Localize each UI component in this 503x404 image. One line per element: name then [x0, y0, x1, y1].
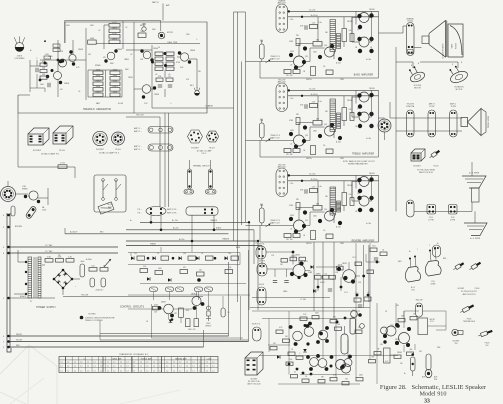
wire verticals [131, 241, 240, 310]
label ORANGE [205, 105, 214, 108]
speaker 6x9 lower [464, 223, 487, 236]
transistor Q35 [340, 355, 352, 370]
svg-text:15 PIN: 15 PIN [451, 106, 457, 108]
capacitor C31 [221, 308, 229, 317]
wire [42, 265, 80, 295]
connector socket J2 (circular) [93, 131, 107, 145]
svg-text:AMP #1 ♂: AMP #1 ♂ [134, 145, 142, 148]
transistor treble amp Q4 output [357, 112, 373, 128]
svg-text:1.2: 1.2 [179, 370, 181, 372]
svg-text:B- 30v: B- 30v [336, 227, 341, 229]
wire rail B+23V [126, 240, 258, 242]
diode CR15 [169, 318, 174, 322]
svg-text:400K: 400K [96, 75, 101, 77]
label treble amp rails [309, 89, 317, 96]
motor rotation [446, 63, 469, 91]
connector long strip [167, 207, 218, 215]
wire treble amp rail B+23v [288, 89, 379, 91]
dot mark [44, 40, 46, 42]
svg-text:B+: B+ [30, 50, 32, 52]
svg-text:220: 220 [42, 74, 45, 76]
svg-text:SOCKET: SOCKET [96, 149, 105, 151]
resistor R54 [100, 266, 108, 272]
svg-text:100K 470: 100K 470 [188, 329, 195, 331]
svg-text:AMP #2 ♂: AMP #2 ♂ [134, 148, 142, 151]
wire reverb amp rail B+13.8v [288, 180, 379, 182]
label bass amp [354, 73, 374, 76]
svg-text:-1.4v: -1.4v [318, 186, 322, 188]
plug twister field [460, 304, 475, 314]
labels reverb conns [428, 217, 455, 222]
svg-text:BLUE: BLUE [236, 247, 240, 249]
label lamp [14, 56, 25, 60]
labels br bottom [422, 376, 438, 381]
fuse reverb amp input [260, 205, 265, 223]
lamp DS3 [194, 87, 200, 95]
label plug 910 [485, 343, 490, 348]
svg-text:1.2: 1.2 [107, 370, 109, 372]
connector reverb aux [433, 245, 441, 257]
svg-text:.02: .02 [98, 30, 100, 32]
svg-text:NOTES: NOTES [89, 314, 97, 316]
svg-text:TRANSISTOR VOLTAGES E.C.: TRANSISTOR VOLTAGES E.C. [119, 353, 149, 356]
label socket/plug 2 [96, 149, 121, 155]
svg-text:115 VAC 2.5 5 AMP: 115 VAC 2.5 5 AMP [197, 150, 213, 153]
wire black lower [10, 295, 55, 298]
svg-text:1.2: 1.2 [153, 366, 155, 368]
wire treble amp interstage [296, 123, 325, 141]
transistor treble amp Q1 [289, 125, 307, 148]
connector P.S. feed [146, 207, 166, 216]
svg-text:2N508: 2N508 [342, 263, 347, 265]
table transistor voltages [59, 357, 218, 373]
labels tank wires [398, 243, 447, 263]
svg-text:820K: 820K [113, 80, 118, 82]
svg-text:910: 910 [486, 345, 489, 347]
svg-text:ROTOR: ROTOR [456, 42, 458, 49]
connector treble amp B+ feed [276, 83, 288, 112]
svg-text:SOCKET: SOCKET [413, 166, 421, 168]
svg-text:THERMAL SWITCH: THERMAL SWITCH [193, 165, 210, 168]
label treble amp B-30 [336, 138, 371, 144]
svg-text:B- 30v: B- 30v [336, 142, 341, 144]
svg-text:JUMP: JUMP [315, 274, 321, 276]
svg-text:CR2: CR2 [183, 253, 186, 255]
svg-text:FUSE 15A: FUSE 15A [406, 105, 415, 108]
wire LT7VAC lower [10, 252, 118, 254]
svg-text:MOTOR: MOTOR [167, 32, 174, 34]
plug socket icon A [453, 262, 465, 271]
junction dots [151, 52, 167, 67]
transistor bass amp Q1 [289, 46, 307, 69]
labels signal [258, 244, 266, 263]
svg-text:B: B [411, 65, 412, 67]
svg-text:YELLOW: YELLOW [415, 300, 422, 302]
svg-text:1.2: 1.2 [212, 362, 214, 364]
svg-text:PLUG: PLUG [209, 148, 215, 150]
svg-text:2N1540: 2N1540 [369, 173, 375, 175]
transistor bass amp Q3 output [357, 13, 373, 30]
label 6x9 spkr upper [469, 173, 480, 175]
svg-text:560: 560 [316, 204, 319, 206]
reverb tank 2 [425, 248, 441, 286]
wire bass amp interstage [296, 44, 325, 62]
svg-text:TREMOLO GENERATOR: TREMOLO GENERATOR [83, 108, 111, 111]
svg-text:PLUG: PLUG [59, 150, 65, 152]
svg-text:OC-2: OC-2 [344, 292, 348, 294]
svg-text:1.2: 1.2 [179, 366, 181, 368]
labels mid band [255, 243, 362, 302]
label 6x9 spkr lower [470, 238, 481, 240]
capacitor motor-run C3 [158, 32, 165, 39]
junction dot [197, 278, 201, 282]
wire reverb amp rail B+23v [288, 174, 379, 176]
switch S2 [115, 179, 121, 201]
wire [151, 215, 214, 241]
wire feeders [314, 242, 334, 331]
motor socket J4 [1, 187, 16, 202]
svg-text:SLOW: SLOW [118, 103, 123, 105]
svg-text:1.2: 1.2 [186, 370, 188, 372]
transistor treble amp Q2 [318, 123, 342, 140]
wire [8, 181, 28, 194]
wire [203, 330, 205, 347]
svg-text:1.2: 1.2 [193, 366, 195, 368]
svg-text:P.S. PIN 4 TO B+: P.S. PIN 4 TO B+ [248, 381, 260, 383]
wire bus v3 [241, 62, 243, 226]
svg-text:BLACK: BLACK [20, 295, 27, 298]
svg-text:4.7 Ω: 4.7 Ω [60, 163, 65, 165]
connector signal in B [257, 263, 267, 276]
svg-text:B+ 12: B+ 12 [411, 287, 415, 289]
wire top stub [152, 1, 169, 21]
svg-text:BASS AMP: BASS AMP [112, 357, 122, 360]
speaker 6x9 upper [462, 176, 486, 202]
svg-text:1.2: 1.2 [67, 370, 69, 372]
svg-text:T1: T1 [333, 103, 335, 105]
svg-text:470K: 470K [112, 22, 117, 24]
label B+25V [172, 220, 178, 222]
svg-text:2N1540: 2N1540 [347, 21, 353, 23]
svg-text:1.2: 1.2 [113, 370, 115, 372]
svg-text:560: 560 [316, 119, 319, 121]
svg-text:B- 30v: B- 30v [336, 63, 341, 65]
bass rotor drum [447, 21, 463, 58]
resistor R60 [153, 305, 160, 314]
capacitor C30 [186, 319, 199, 327]
fuse treble amp input [260, 120, 265, 138]
svg-text:1.2: 1.2 [140, 366, 142, 368]
label LT 7 VAC [45, 244, 53, 253]
wire [390, 102, 462, 131]
connector strip amp1 lower [148, 144, 173, 151]
label treble strip 1 [406, 103, 415, 108]
transistor Q33 [306, 354, 320, 371]
svg-text:AMP #1&2: AMP #1&2 [278, 81, 286, 84]
transistor Q6 [142, 85, 156, 99]
wire bass amp input run [246, 40, 294, 62]
bridge rectifier CR1-CR4 [53, 269, 74, 290]
resistor group R30-R37 [155, 52, 174, 70]
svg-text:.05: .05 [168, 74, 170, 76]
svg-text:EFFECT: EFFECT [206, 325, 212, 327]
label LOW SPEED [22, 186, 29, 190]
resistor bass amp emitter C [326, 70, 333, 75]
labels tremolo values 2 [30, 25, 202, 93]
speaker driver box [422, 36, 429, 44]
connector signal in A [256, 246, 266, 259]
bus junction dots [3, 214, 10, 349]
treble horn [468, 109, 491, 136]
svg-text:DRIVE: DRIVE [431, 284, 436, 286]
resistor reverb amp emitter B [311, 231, 316, 240]
svg-text:-1.4v: -1.4v [318, 101, 322, 103]
svg-text:FAST: FAST [108, 206, 112, 209]
svg-text:1.2: 1.2 [166, 370, 168, 372]
svg-text:AMP #1&2: AMP #1&2 [278, 2, 286, 5]
svg-text:.05: .05 [324, 274, 327, 276]
svg-text:PLUG: PLUG [467, 319, 472, 321]
svg-text:GREEN: GREEN [150, 243, 157, 245]
thermal switch TS2 [209, 160, 213, 189]
label B+23V [179, 239, 184, 241]
svg-text:Q15: Q15 [357, 29, 360, 31]
wire [379, 26, 422, 48]
svg-text:1.2: 1.2 [67, 366, 69, 368]
svg-text:16 INCH SPEAKER: 16 INCH SPEAKER [442, 43, 445, 59]
svg-text:22K 39K: 22K 39K [286, 154, 293, 156]
connector reverb sq2 [449, 205, 458, 215]
resistor reverb amp fb [289, 203, 322, 211]
label reverb amp 23v arrow [289, 183, 294, 185]
svg-text:B+: B+ [130, 220, 132, 222]
wire control box top [100, 333, 229, 335]
svg-text:500/15v: 500/15v [306, 158, 312, 160]
connector rotation motor plug [378, 119, 391, 132]
resistor reverb amp emitter A [284, 234, 300, 238]
svg-text:50: 50 [228, 312, 230, 314]
svg-text:22K 39K: 22K 39K [286, 75, 293, 77]
transformer treble amp T1 secondary [337, 113, 341, 129]
labels hex connectors [191, 148, 215, 156]
caption figure 28 [380, 384, 487, 398]
svg-text:1.2: 1.2 [100, 362, 102, 364]
resistor treble amp emitter C [326, 149, 333, 154]
svg-text:AMP #2 P.S.: AMP #2 P.S. [167, 212, 177, 215]
svg-text:+1000: +1000 [80, 261, 85, 263]
svg-text:Model 910: Model 910 [420, 391, 447, 398]
resistor R51 [56, 257, 64, 263]
wire [88, 70, 122, 97]
wire VIOLET [10, 341, 249, 343]
label POWER SUPPLY [36, 306, 56, 309]
svg-text:1.2: 1.2 [113, 362, 115, 364]
vertical lamp A [411, 353, 416, 376]
transistor reverb amp Q1 [289, 210, 307, 233]
label socket/plug [33, 150, 65, 156]
wire [99, 320, 101, 340]
svg-text:8 T.P.: 8 T.P. [430, 321, 434, 323]
label B+24V [173, 228, 178, 230]
svg-text:MAX P. 12V: MAX P. 12V [271, 222, 281, 225]
svg-text:15 PIN: 15 PIN [429, 106, 435, 108]
label reverb amp [352, 240, 375, 243]
svg-text:400K: 400K [96, 86, 101, 88]
svg-text:1.2: 1.2 [173, 366, 175, 368]
svg-text:1.2: 1.2 [107, 362, 109, 364]
svg-text:470: 470 [352, 310, 355, 312]
svg-text:-1.4v: -1.4v [318, 22, 322, 24]
svg-text:22K 39K: 22K 39K [286, 239, 293, 241]
svg-text:1MEG: 1MEG [112, 86, 118, 88]
svg-text:1MEG: 1MEG [48, 56, 53, 58]
svg-text:.5: .5 [36, 58, 37, 60]
labels transistors [64, 48, 195, 96]
pot arrow [104, 259, 111, 267]
svg-text:MOTOR: MOTOR [414, 87, 421, 89]
svg-text:.05: .05 [290, 65, 292, 67]
svg-text:1.2: 1.2 [61, 362, 63, 364]
svg-text:.1: .1 [170, 103, 171, 105]
wire reverb amp input run [246, 204, 294, 226]
svg-text:1.2: 1.2 [74, 370, 76, 372]
svg-text:1.2: 1.2 [199, 362, 201, 364]
svg-text:100: 100 [349, 109, 352, 111]
svg-text:2N508: 2N508 [161, 302, 166, 304]
wire [30, 60, 45, 92]
svg-text:VIOLET: VIOLET [16, 339, 23, 341]
svg-text:.1: .1 [299, 353, 300, 355]
svg-text:.05: .05 [78, 91, 80, 93]
svg-text:BASS AMPLIFIER: BASS AMPLIFIER [354, 73, 374, 76]
label signal C [252, 324, 261, 326]
resistor R53 [89, 266, 97, 272]
capacitor C22 [101, 278, 106, 287]
dot reverb amp rail [288, 174, 304, 182]
svg-text:NE-2: NE-2 [140, 25, 144, 27]
wire top [65, 21, 161, 44]
left bus wires [7, 213, 11, 352]
svg-text:1.2: 1.2 [94, 366, 96, 368]
connector bass amp B+ feed [276, 4, 288, 33]
svg-text:.05: .05 [290, 144, 292, 146]
lamp DS10 [206, 306, 212, 327]
labels amp strip [134, 127, 142, 151]
transistor reverb amp Q4 output [357, 196, 373, 212]
transistor Q0 [59, 59, 67, 67]
svg-text:COIL: COIL [431, 281, 435, 283]
conn pins extra [408, 46, 414, 54]
capacitor C1 [48, 83, 50, 87]
resistor bass amp right [342, 29, 354, 42]
svg-text:100: 100 [349, 194, 352, 196]
svg-text:LT 7 VAC: LT 7 VAC [45, 250, 53, 253]
svg-text:1.2: 1.2 [87, 362, 89, 364]
svg-text:T1: T1 [333, 188, 335, 190]
svg-text:B+: B+ [409, 251, 411, 253]
wire treble amp input run [246, 119, 294, 141]
wire reverb amp out stubs [352, 182, 372, 202]
svg-text:PRE: PRE [437, 347, 440, 349]
svg-text:2N508: 2N508 [395, 339, 400, 341]
label plug twister [463, 319, 476, 324]
svg-text:MAX P. 12V: MAX P. 12V [271, 58, 281, 61]
label THERMAL SWITCH [193, 165, 210, 168]
transistor Q32 [316, 326, 329, 344]
svg-text:B18: B18 [422, 377, 425, 379]
svg-text:1.2: 1.2 [120, 366, 122, 368]
component box [88, 38, 97, 44]
resistor reverb amp right [342, 193, 354, 206]
socket 910 icon [452, 329, 463, 335]
connector iso J11 [245, 352, 263, 375]
svg-text:SOCKET: SOCKET [191, 148, 200, 150]
svg-text:2N508: 2N508 [117, 49, 122, 51]
wire [18, 28, 86, 100]
wire [252, 311, 377, 384]
svg-text:FAST: FAST [96, 102, 100, 105]
labels psu [58, 255, 104, 292]
svg-text:.05: .05 [155, 74, 157, 76]
svg-text:1.2: 1.2 [179, 362, 181, 364]
svg-text:1.2: 1.2 [74, 366, 76, 368]
transistor bass amp Q4 output [357, 37, 373, 53]
svg-text:1.2: 1.2 [127, 370, 129, 372]
svg-text:←23v: ←23v [289, 183, 294, 185]
svg-text:1.2: 1.2 [160, 362, 162, 364]
wire rail turns [249, 222, 262, 310]
resistor vertical Q38 [384, 348, 391, 363]
svg-text:2N1540: 2N1540 [369, 88, 375, 90]
svg-text:100: 100 [349, 30, 352, 32]
svg-text:1.2: 1.2 [74, 362, 76, 364]
svg-text:150: 150 [91, 266, 94, 268]
wire [96, 22, 200, 113]
wire [152, 107, 234, 109]
svg-text:SOCKET: SOCKET [251, 379, 258, 381]
svg-text:#16 2&3: #16 2&3 [407, 21, 413, 23]
network bass amp top [305, 22, 322, 30]
connector signal in C [253, 327, 262, 341]
wire treble amp rail B+13.8v [288, 95, 379, 97]
svg-text:LOW SPEED: LOW SPEED [14, 58, 25, 60]
trim label [167, 42, 178, 44]
svg-text:.02: .02 [125, 27, 127, 29]
transistor Q4 [178, 51, 191, 63]
label bass amp feed [278, 0, 287, 5]
wire [248, 250, 250, 342]
reverb tank 1 [405, 256, 420, 292]
label YELLOW br [415, 300, 422, 302]
svg-text:1.2: 1.2 [146, 362, 148, 364]
svg-text:1MEG: 1MEG [124, 59, 129, 61]
svg-text:115 VAC 1/2 5 AMP P.S. 9: 115 VAC 1/2 5 AMP P.S. 9 [99, 152, 119, 155]
resistor R39 [166, 76, 173, 81]
label BROWN [15, 226, 23, 228]
transistor Q36 [351, 311, 362, 318]
capacitor C8 [11, 206, 15, 216]
svg-text:1.2: 1.2 [100, 366, 102, 368]
svg-text:P.S. ♂: P.S. ♂ [138, 213, 143, 215]
wire bus v2 [237, 12, 239, 302]
connector strip amp1 upper [148, 127, 173, 134]
svg-text:.1: .1 [196, 39, 197, 41]
svg-text:1.2: 1.2 [173, 370, 175, 372]
components cluster top [352, 292, 371, 312]
junction dots cluster [288, 317, 352, 376]
transistor Q34 [318, 355, 333, 371]
svg-text:45.047: 45.047 [320, 282, 325, 284]
